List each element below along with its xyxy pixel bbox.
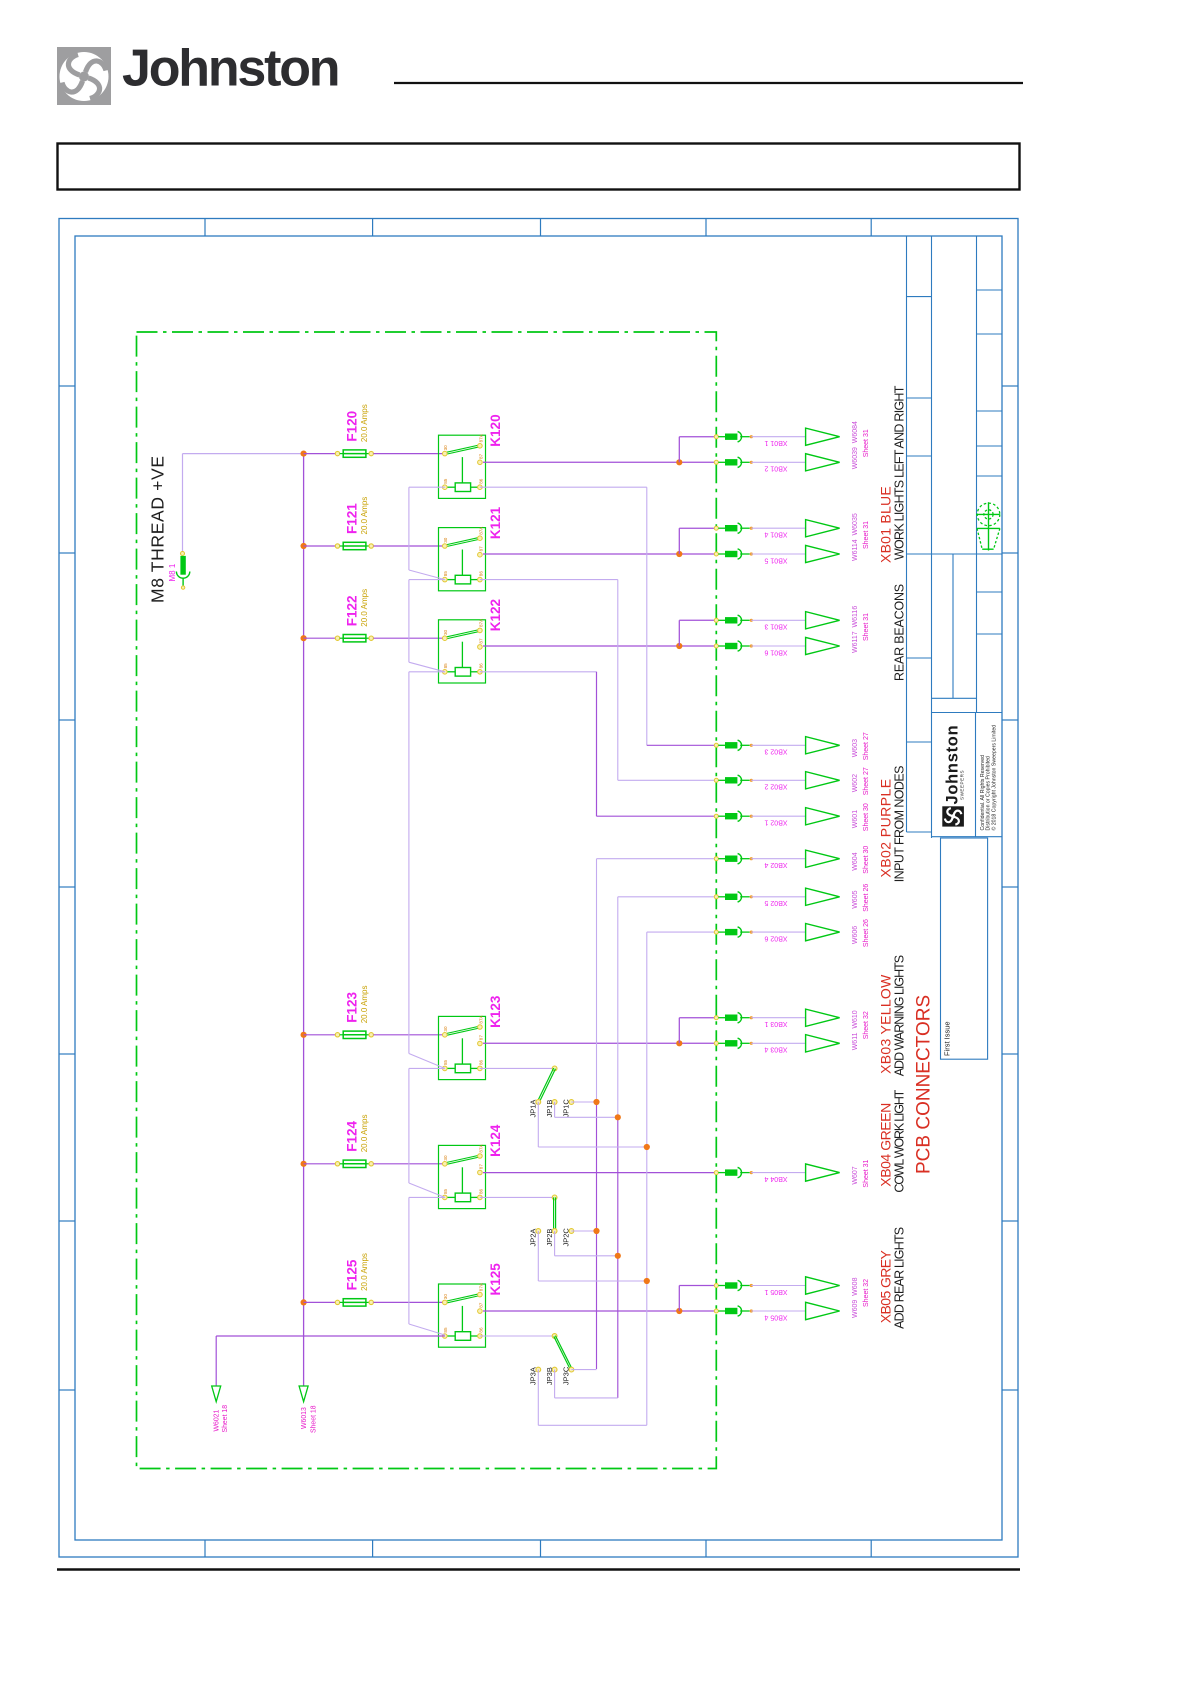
fuse F122 20.0 Amps bbox=[304, 637, 338, 639]
svg-text:87: 87 bbox=[478, 1035, 483, 1041]
wire XB02 4 to JP chain bbox=[597, 858, 717, 860]
junction on bus at F121 bbox=[301, 543, 307, 549]
svg-text:XB05 GREY: XB05 GREY bbox=[878, 1250, 894, 1324]
connector pin XB05 4 bbox=[714, 1309, 718, 1313]
svg-text:K125: K125 bbox=[488, 1263, 503, 1296]
svg-text:XB02 2: XB02 2 bbox=[764, 783, 787, 790]
sheet arrow XB01 5 bbox=[806, 545, 840, 562]
svg-text:XB01 6: XB01 6 bbox=[764, 648, 787, 655]
svg-text:85: 85 bbox=[443, 1059, 448, 1065]
svg-text:XB05 1: XB05 1 bbox=[764, 1288, 787, 1295]
sheet arrow W6021 bbox=[212, 1386, 221, 1402]
svg-text:XB03 YELLOW: XB03 YELLOW bbox=[878, 974, 894, 1074]
svg-text:Sheet 18: Sheet 18 bbox=[310, 1405, 317, 1433]
PCB boundary dash-dot box bbox=[137, 332, 717, 1469]
wire chain K121.85-K122.85 bbox=[408, 580, 410, 663]
svg-text:JP1A: JP1A bbox=[529, 1100, 538, 1118]
svg-text:Sheet 31: Sheet 31 bbox=[863, 613, 870, 641]
junction node XB01 1/2 bbox=[676, 459, 682, 465]
wire fuse to relay K120 pin 30 bbox=[373, 453, 444, 455]
wire K120.87 output bbox=[483, 461, 716, 463]
svg-text:JP2A: JP2A bbox=[529, 1229, 538, 1247]
sheet arrow XB01 4 bbox=[806, 520, 840, 537]
svg-text:XB01 BLUE: XB01 BLUE bbox=[878, 486, 894, 563]
sheet arrow XB05 1 bbox=[806, 1277, 840, 1294]
fuse F121 20.0 Amps bbox=[304, 545, 338, 547]
svg-text:86: 86 bbox=[478, 1059, 483, 1065]
svg-text:87: 87 bbox=[478, 1302, 483, 1308]
svg-text:PCB CONNECTORS: PCB CONNECTORS bbox=[914, 995, 935, 1174]
connector pin XB01 2 bbox=[714, 460, 718, 464]
sheet arrow XB01 2 bbox=[806, 454, 840, 471]
svg-text:F121: F121 bbox=[345, 503, 360, 534]
svg-text:F125: F125 bbox=[345, 1259, 360, 1290]
svg-text:30: 30 bbox=[443, 1294, 448, 1300]
svg-text:XB02 PURPLE: XB02 PURPLE bbox=[878, 778, 894, 877]
wire fuse to relay K124 pin 30 bbox=[373, 1163, 444, 1165]
connector pin XB02 1 bbox=[714, 814, 718, 818]
svg-text:87A: 87A bbox=[478, 433, 483, 442]
svg-text:Sheet 32: Sheet 32 bbox=[863, 1011, 870, 1039]
svg-text:87A: 87A bbox=[478, 526, 483, 535]
svg-text:XB03 1: XB03 1 bbox=[764, 1020, 787, 1027]
title block strip lines bbox=[906, 236, 908, 832]
svg-text:XB03 4: XB03 4 bbox=[764, 1046, 787, 1053]
svg-text:JP2B: JP2B bbox=[545, 1229, 554, 1247]
connector pin XB03 4 bbox=[714, 1041, 718, 1045]
wire riser XB01 4/5 bbox=[678, 528, 680, 554]
svg-text:XB02 3: XB02 3 bbox=[764, 748, 787, 755]
svg-text:W605: W605 bbox=[852, 890, 859, 908]
sheet arrow XB02 4 bbox=[806, 850, 840, 867]
svg-text:XB01 3: XB01 3 bbox=[764, 623, 787, 630]
svg-text:Sheet 27: Sheet 27 bbox=[863, 767, 870, 795]
svg-text:Sheet 31: Sheet 31 bbox=[863, 429, 870, 457]
wire B+ feed bbox=[183, 453, 304, 455]
jumper pads JP2A JP2B JP2C bbox=[536, 1229, 541, 1234]
svg-text:20.0 Amps: 20.0 Amps bbox=[360, 1114, 369, 1152]
svg-text:W6013: W6013 bbox=[301, 1407, 308, 1429]
svg-text:30: 30 bbox=[443, 1026, 448, 1032]
svg-text:F120: F120 bbox=[345, 411, 360, 442]
svg-text:Sheet 18: Sheet 18 bbox=[222, 1405, 229, 1433]
svg-text:Johnston: Johnston bbox=[122, 40, 338, 98]
svg-text:Sheet 32: Sheet 32 bbox=[863, 1279, 870, 1307]
sheet arrow XB01 6 bbox=[806, 637, 840, 654]
wire XB02 5 to JP chain bbox=[618, 896, 717, 898]
connector pin XB01 4 bbox=[714, 526, 718, 530]
wire riser XB05 1/4 bbox=[678, 1286, 680, 1312]
bottom rule bbox=[57, 1568, 1020, 1571]
svg-text:© 2018 Copyright Johnston Swee: © 2018 Copyright Johnston Sweepers Limit… bbox=[991, 725, 998, 831]
svg-text:INPUT FROM NODES: INPUT FROM NODES bbox=[893, 766, 907, 882]
wire K120.86 to XB02 3 bbox=[480, 486, 647, 488]
svg-text:87A: 87A bbox=[478, 1282, 483, 1291]
wire fuse to relay K123 pin 30 bbox=[373, 1034, 444, 1036]
svg-text:W6114 W6035: W6114 W6035 bbox=[852, 513, 859, 561]
wire K125.87 output bbox=[483, 1310, 716, 1312]
sheet arrow XB02 2 bbox=[806, 772, 840, 789]
fuse F123 20.0 Amps bbox=[304, 1034, 338, 1036]
svg-text:XB02 6: XB02 6 bbox=[764, 934, 787, 941]
svg-text:W609 W608: W609 W608 bbox=[852, 1277, 859, 1318]
svg-text:JP3B: JP3B bbox=[545, 1367, 554, 1385]
junction on bus at F123 bbox=[301, 1032, 307, 1038]
svg-text:F123: F123 bbox=[345, 992, 360, 1023]
M8 stud terminal bbox=[181, 552, 185, 556]
relay K122 bbox=[439, 620, 486, 683]
svg-text:Sheet 31: Sheet 31 bbox=[863, 521, 870, 549]
svg-text:20.0 Amps: 20.0 Amps bbox=[360, 1253, 369, 1291]
svg-text:W604: W604 bbox=[852, 852, 859, 870]
svg-text:JP2C: JP2C bbox=[562, 1228, 571, 1247]
connector pin XB04 4 bbox=[714, 1171, 718, 1175]
title block Johnston logo bbox=[942, 806, 964, 826]
wire fuse to relay K125 pin 30 bbox=[373, 1301, 444, 1303]
svg-text:K121: K121 bbox=[488, 506, 503, 539]
svg-text:W607: W607 bbox=[852, 1166, 859, 1184]
svg-text:30: 30 bbox=[443, 445, 448, 451]
junction on bus at F124 bbox=[301, 1161, 307, 1167]
svg-text:COWL WORK LIGHT: COWL WORK LIGHT bbox=[893, 1089, 907, 1192]
svg-text:86: 86 bbox=[478, 1188, 483, 1194]
wire K121.86 to XB02 2 bbox=[480, 579, 618, 581]
Johnston logo bbox=[57, 47, 111, 105]
logo cell bbox=[932, 712, 1003, 714]
first angle projection symbol bbox=[976, 502, 1000, 550]
svg-text:XB01 2: XB01 2 bbox=[764, 465, 787, 472]
connector pin XB01 3 bbox=[714, 618, 718, 622]
svg-text:JP1B: JP1B bbox=[545, 1100, 554, 1118]
relay K124 bbox=[439, 1145, 486, 1208]
svg-text:First Issue: First Issue bbox=[943, 1021, 952, 1056]
wire chain K124.85-K125.85 bbox=[408, 1197, 410, 1324]
svg-text:Sheet 26: Sheet 26 bbox=[863, 884, 870, 912]
sheet arrow XB01 3 bbox=[806, 612, 840, 629]
sheet arrow XB02 3 bbox=[806, 737, 840, 754]
svg-text:87A: 87A bbox=[478, 1143, 483, 1152]
svg-text:86: 86 bbox=[478, 1327, 483, 1333]
wire K124.87 output bbox=[483, 1172, 716, 1174]
svg-text:K122: K122 bbox=[488, 599, 503, 631]
svg-text:20.0 Amps: 20.0 Amps bbox=[360, 404, 369, 442]
wire K12x.86 to jumper JP3 common pad bbox=[480, 1335, 555, 1337]
svg-text:K120: K120 bbox=[488, 414, 503, 446]
header rule bbox=[394, 82, 1023, 84]
wire K123.87 output bbox=[483, 1042, 716, 1044]
sheet arrow XB05 4 bbox=[806, 1302, 840, 1319]
svg-text:85: 85 bbox=[443, 663, 448, 669]
svg-text:87: 87 bbox=[478, 453, 483, 459]
connector pin XB03 1 bbox=[714, 1016, 718, 1020]
svg-text:20.0 Amps: 20.0 Amps bbox=[360, 497, 369, 535]
svg-text:ADD WARNING LIGHTS: ADD WARNING LIGHTS bbox=[893, 955, 907, 1076]
svg-text:M8 THREAD +VE: M8 THREAD +VE bbox=[148, 455, 168, 603]
svg-text:86: 86 bbox=[478, 663, 483, 669]
relay K123 bbox=[439, 1016, 486, 1079]
svg-text:Sheet 31: Sheet 31 bbox=[863, 1159, 870, 1187]
svg-text:86: 86 bbox=[478, 571, 483, 577]
wire riser XB03 1/4 bbox=[678, 1018, 680, 1044]
svg-text:W6117 W6116: W6117 W6116 bbox=[852, 606, 859, 653]
svg-text:W606: W606 bbox=[852, 926, 859, 944]
svg-text:20.0 Amps: 20.0 Amps bbox=[360, 589, 369, 627]
svg-text:F122: F122 bbox=[345, 595, 360, 626]
wire XB02 6 to JP chain bbox=[647, 931, 717, 933]
jumper link JP2B bbox=[553, 1197, 555, 1231]
connector pin XB02 3 bbox=[714, 743, 718, 747]
wire K12x.86 to jumper JP1 common pad bbox=[480, 1067, 555, 1069]
jumper pads JP1A JP1B JP1C bbox=[536, 1100, 541, 1105]
wire chain K122.85-K123.85 bbox=[408, 672, 410, 1054]
wire K122.87 output bbox=[483, 645, 716, 647]
relay K120 bbox=[439, 435, 486, 498]
svg-text:XB02 5: XB02 5 bbox=[764, 899, 787, 906]
svg-text:W603: W603 bbox=[852, 739, 859, 757]
sheet arrow XB02 5 bbox=[806, 888, 840, 905]
title box bbox=[58, 144, 1020, 190]
svg-text:JP3C: JP3C bbox=[562, 1366, 571, 1385]
connector pin XB05 1 bbox=[714, 1284, 718, 1288]
wire fuse to relay K122 pin 30 bbox=[373, 637, 444, 639]
connector pin XB02 2 bbox=[714, 778, 718, 782]
svg-text:Sheet 30: Sheet 30 bbox=[863, 846, 870, 874]
svg-text:85: 85 bbox=[443, 478, 448, 484]
relay K121 bbox=[439, 528, 486, 591]
junction node XB03 1/4 bbox=[676, 1040, 682, 1046]
svg-text:20.0 Amps: 20.0 Amps bbox=[360, 985, 369, 1023]
connector pin XB02 5 bbox=[714, 895, 718, 899]
svg-text:K123: K123 bbox=[488, 995, 503, 1028]
relay K125 bbox=[439, 1284, 486, 1347]
svg-text:Sheet 27: Sheet 27 bbox=[863, 732, 870, 760]
fuse F125 20.0 Amps bbox=[304, 1301, 338, 1303]
connector pin XB02 6 bbox=[714, 930, 718, 934]
svg-text:85: 85 bbox=[443, 1327, 448, 1333]
wire chain K120.85-K121.85 bbox=[408, 487, 410, 570]
svg-text:XB02 4: XB02 4 bbox=[764, 861, 787, 868]
wire chain K123.85-K124.85 bbox=[408, 1068, 410, 1183]
svg-text:Sheet 30: Sheet 30 bbox=[863, 803, 870, 831]
svg-text:K124: K124 bbox=[488, 1124, 503, 1157]
junction on bus at F120 bbox=[301, 451, 307, 457]
svg-text:30: 30 bbox=[443, 537, 448, 543]
svg-text:87A: 87A bbox=[478, 1014, 483, 1023]
svg-text:30: 30 bbox=[443, 629, 448, 635]
svg-text:M8 1: M8 1 bbox=[168, 563, 177, 581]
svg-text:W611 W610: W611 W610 bbox=[852, 1010, 859, 1050]
wire riser XB01 3/6 bbox=[678, 620, 680, 646]
bus to sheet arrow W6013 bbox=[299, 1386, 308, 1402]
junction node XB05 1/4 bbox=[676, 1308, 682, 1314]
svg-text:ADD REAR LIGHTS: ADD REAR LIGHTS bbox=[893, 1227, 907, 1329]
connector pin XB01 5 bbox=[714, 552, 718, 556]
svg-text:JP3A: JP3A bbox=[529, 1367, 538, 1385]
svg-text:REAR BEACONS: REAR BEACONS bbox=[893, 584, 907, 681]
revision cell bbox=[941, 838, 988, 1059]
wire K121.85 stub bbox=[409, 579, 445, 581]
svg-text:87A: 87A bbox=[478, 618, 483, 627]
jumper link JP1A bbox=[537, 1068, 553, 1102]
svg-text:XB01 4: XB01 4 bbox=[764, 531, 787, 538]
svg-text:XB05 4: XB05 4 bbox=[764, 1313, 787, 1320]
svg-text:XB04 4: XB04 4 bbox=[764, 1175, 787, 1182]
junction node XB01 3/6 bbox=[676, 643, 682, 649]
svg-text:F124: F124 bbox=[345, 1121, 360, 1152]
svg-text:87: 87 bbox=[478, 638, 483, 644]
junction node XB01 4/5 bbox=[676, 551, 682, 557]
connector pin XB01 6 bbox=[714, 644, 718, 648]
sheet arrow XB02 6 bbox=[806, 924, 840, 941]
connector pin XB01 1 bbox=[714, 435, 718, 439]
sheet arrow XB04 4 bbox=[806, 1164, 840, 1181]
wire K125.85 to W6021 bbox=[216, 1335, 445, 1337]
wire K121.87 output bbox=[483, 553, 716, 555]
svg-text:85: 85 bbox=[443, 1188, 448, 1194]
wire fuse to relay K121 pin 30 bbox=[373, 545, 444, 547]
wire K122.85 stub bbox=[409, 671, 445, 673]
wire K12x.86 to jumper JP2 common pad bbox=[480, 1196, 555, 1198]
jumper link JP3C bbox=[554, 1336, 571, 1370]
svg-text:W602: W602 bbox=[852, 774, 859, 792]
svg-text:WORK LIGHTS LEFT AND RIGHT: WORK LIGHTS LEFT AND RIGHT bbox=[893, 385, 907, 560]
svg-text:XB04 GREEN: XB04 GREEN bbox=[878, 1103, 894, 1186]
bus +VE vertical bbox=[303, 454, 305, 1386]
svg-text:30: 30 bbox=[443, 1155, 448, 1161]
connector pin XB02 4 bbox=[714, 857, 718, 861]
svg-text:XB02 1: XB02 1 bbox=[764, 819, 787, 826]
sheet arrow XB03 4 bbox=[806, 1035, 840, 1052]
wire K120.85 to chain bbox=[409, 486, 445, 488]
svg-text:W6039 W6084: W6039 W6084 bbox=[852, 421, 859, 469]
svg-text:XB01 1: XB01 1 bbox=[764, 439, 787, 446]
wire K124.85 stub bbox=[409, 1196, 445, 1198]
svg-text:W6021: W6021 bbox=[213, 1409, 220, 1431]
wire K123.85 stub bbox=[409, 1067, 445, 1069]
svg-text:W601: W601 bbox=[852, 810, 859, 828]
sheet arrow XB01 1 bbox=[806, 428, 840, 445]
wire riser XB01 1/2 bbox=[678, 437, 680, 463]
svg-text:87: 87 bbox=[478, 1164, 483, 1170]
junction on bus at F125 bbox=[301, 1299, 307, 1305]
fuse F124 20.0 Amps bbox=[304, 1163, 338, 1165]
svg-text:85: 85 bbox=[443, 571, 448, 577]
svg-text:86: 86 bbox=[478, 478, 483, 484]
sheet arrow XB02 1 bbox=[806, 808, 840, 825]
svg-text:SWEEPERS: SWEEPERS bbox=[960, 770, 965, 800]
fuse F120 20.0 Amps bbox=[304, 453, 338, 455]
jumper pads JP3A JP3B JP3C bbox=[536, 1367, 541, 1372]
svg-text:XB01 5: XB01 5 bbox=[764, 556, 787, 563]
wire K122.86 to XB02 1 bbox=[480, 671, 597, 673]
sheet arrow XB03 1 bbox=[806, 1009, 840, 1026]
svg-text:Sheet 26: Sheet 26 bbox=[863, 919, 870, 947]
svg-text:87: 87 bbox=[478, 546, 483, 552]
svg-text:JP1C: JP1C bbox=[562, 1099, 571, 1118]
junction on bus at F122 bbox=[301, 635, 307, 641]
